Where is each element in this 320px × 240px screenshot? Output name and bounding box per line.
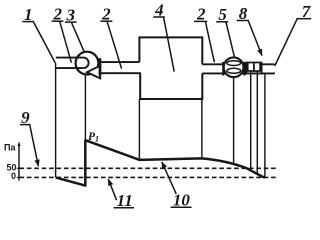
duct 2 chamber-to-outlet top wall [202,63,274,65]
fan 3 outlet vane triangle [87,66,100,79]
pressure curve 10 [56,140,266,185]
tick 0 [17,176,22,178]
svg-text:Па: Па [4,142,16,152]
orifice 8 left flange [245,62,247,75]
inlet duct 1 bottom wall [55,67,83,69]
meter 5 upper rotor ellipse [227,61,241,66]
chamber 4 outline [139,37,202,99]
svg-text:11: 11 [117,191,133,210]
wire: drop line from duct inlet [55,63,57,177]
fan 3 casing circle [76,52,99,75]
wire: drop line from meter U5 [233,77,235,164]
wire: drop line from chamber right edge [201,99,203,159]
label 2 (chamber-to-outlet duct) [194,5,214,63]
meter 5 left flange [222,62,224,76]
label 4 [153,0,174,71]
inlet duct rounded cap [83,58,88,69]
label 2 (inlet duct) [52,5,72,63]
label 7 [275,2,312,66]
meter 5 right flange [243,62,245,76]
wire: drop line from orifice right [256,71,258,174]
label 2 (fan-to-chamber duct) [100,5,121,69]
pressure axis [18,141,21,180]
tick 50 [17,167,22,169]
label 1 [22,5,55,63]
meter 5 body circle [224,57,244,77]
inlet duct 1 top wall [56,57,84,59]
fan 3 outlet flange bar [99,58,102,75]
dashed line 50 Pa level (node 9) [20,167,278,169]
wire: drop line from chamber left edge [138,99,140,160]
wire: drop line from outlet pipe end [264,73,266,177]
label 11 [108,179,134,210]
wire: drop line from orifice left [250,71,252,170]
label 3 [65,5,84,52]
orifice 8 right cell [254,63,260,72]
dashed line 0 Pa level (node 11) [20,176,278,178]
label 9 [20,108,39,166]
svg-text:0: 0 [11,171,16,181]
label 5 [216,5,234,57]
label 8 [237,4,262,56]
meter 5 lower rotor ellipse [227,68,241,73]
orifice 8 right flange [261,62,263,75]
orifice 8 left cell [248,63,254,72]
wire: drop line from fan [84,75,86,142]
duct 2 chamber-to-outlet bottom wall [202,72,275,74]
duct 2 fan-to-chamber top wall [101,61,139,63]
duct 2 fan-to-chamber bottom wall [101,72,141,74]
label 10 [162,162,192,209]
